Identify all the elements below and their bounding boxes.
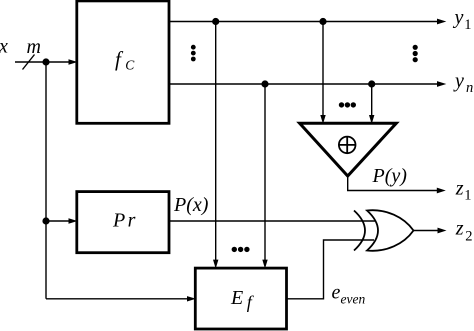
wire: P(x) from Pr to xor gate xyxy=(168,220,375,222)
wire: output yn xyxy=(168,81,446,87)
wire: yn down to Ef xyxy=(262,84,267,269)
wire: yn down to parity triangle xyxy=(369,84,374,124)
wire: input x into fC xyxy=(15,59,78,64)
label z1 xyxy=(455,178,472,204)
wire: output y1 xyxy=(168,19,446,25)
svg-text:x: x xyxy=(0,36,8,58)
svg-text:e: e xyxy=(332,282,341,304)
wire: y1 down to parity triangle xyxy=(320,22,325,125)
wire: branch into Pr xyxy=(46,218,78,223)
label e_even xyxy=(332,282,366,307)
svg-text:2: 2 xyxy=(465,229,472,245)
node: junction y1 to parity tap xyxy=(319,18,326,25)
node: junction at Pr branch xyxy=(42,217,49,224)
wire: xor gate output to z2 xyxy=(413,228,447,234)
horizontal ellipsis above parity triangle xyxy=(339,102,356,107)
horizontal ellipsis above Ef xyxy=(232,247,250,252)
block fC xyxy=(77,1,169,123)
svg-text:P(x): P(x) xyxy=(173,194,209,216)
wire: e_even from Ef to xor gate xyxy=(286,240,375,299)
svg-text:z: z xyxy=(455,178,464,200)
block Ef xyxy=(195,268,286,329)
vertical ellipsis near y labels xyxy=(413,45,418,63)
svg-text:y: y xyxy=(453,70,464,92)
node: junction yn to parity tap xyxy=(368,80,375,87)
svg-text:y: y xyxy=(453,7,464,29)
wire: parity triangle output to z1 xyxy=(348,176,446,193)
svg-text:P(y): P(y) xyxy=(372,165,408,187)
bus slash on x input xyxy=(23,55,35,70)
wire: vertical feed from x junction down xyxy=(45,62,47,299)
xor gate G1 xyxy=(354,210,414,251)
svg-text:C: C xyxy=(125,58,135,73)
svg-text:P: P xyxy=(112,210,125,232)
svg-text:n: n xyxy=(466,80,473,96)
node: junction on x input xyxy=(42,58,49,65)
label z2 xyxy=(455,218,473,245)
label y1 xyxy=(453,7,472,34)
vertical ellipsis between outputs near fC xyxy=(191,45,196,62)
svg-text:z: z xyxy=(455,218,464,240)
svg-text:even: even xyxy=(341,292,366,307)
svg-text:r: r xyxy=(128,210,136,232)
node: junction y1 to Ef tap xyxy=(212,18,219,25)
svg-text:E: E xyxy=(230,287,243,309)
svg-text:1: 1 xyxy=(464,188,471,204)
xor parity triangle U1 xyxy=(300,123,397,176)
node: junction yn to Ef tap xyxy=(261,80,268,87)
wire: y1 down to Ef xyxy=(213,22,218,269)
label yn xyxy=(453,70,473,96)
svg-text:1: 1 xyxy=(464,17,471,33)
wire: bottom feed into Ef xyxy=(46,296,196,301)
svg-text:m: m xyxy=(27,36,41,58)
block Pr xyxy=(77,192,169,253)
